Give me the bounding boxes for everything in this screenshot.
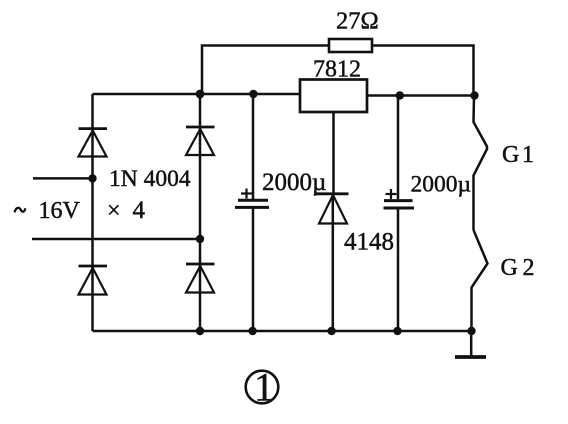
capacitor C1 polarity plus [241,189,252,199]
svg-text:G: G [502,142,519,168]
svg-text:1N 4004: 1N 4004 [109,166,191,192]
wire output bus with G1 tap [474,96,488,231]
wire regulator output rail [367,94,475,97]
capacitor C2 polarity plus [386,189,397,199]
svg-text:×: × [107,198,121,224]
capacitor C2 plates [384,201,415,208]
wire left bridge column [91,94,94,331]
capacitor C1 lead lower [252,208,255,331]
svg-text:27Ω: 27Ω [336,8,379,35]
node bottom rail C2 junction [393,327,401,335]
wire bottom ground rail [93,330,472,333]
node ground junction [467,327,475,335]
capacitor C1 plates [235,200,269,207]
svg-text:2000µ: 2000µ [411,172,472,198]
svg-text:2000µ: 2000µ [262,169,326,196]
svg-text:16V: 16V [39,198,81,224]
ground symbol [455,331,486,357]
wire right bridge column [199,94,202,331]
svg-text:7812: 7812 [313,57,361,83]
svg-text:2: 2 [523,255,535,281]
diode D5 4148 [316,194,349,224]
capacitor C2 lead lower [397,209,400,332]
wire AC input lower [32,238,200,241]
svg-text:G: G [501,255,518,281]
node bottom rail D5 junction [327,327,335,335]
node bottom rail C1 junction [248,327,256,335]
diode D2 1N4004 upper-right [186,127,215,155]
label AC source ~ 16V [15,208,26,212]
wire main rail from bridge to regulator input [93,93,301,96]
svg-text:4: 4 [133,197,146,224]
node C1 top junction [249,90,257,98]
node C2 top junction [396,91,404,99]
node AC2 junction [196,235,204,243]
node AC1 junction [88,174,96,182]
diode D3 1N4004 lower-left [79,266,108,295]
node top rail / bridge column junction [196,90,205,99]
resistor R1 27Ω body [329,39,372,52]
capacitor C1 2000µ lead upper [252,94,255,199]
wire U1 ground pin down to D5 [332,112,335,193]
node bottom rail bridge junction [196,327,204,335]
diode D4 1N4004 lower-right [186,264,215,293]
wire output bus with G2 tap [472,230,488,331]
svg-text:1: 1 [254,365,274,410]
svg-text:4148: 4148 [344,229,394,256]
wire top 27-ohm bypass horizontal [202,46,329,95]
node output bus top junction [470,91,478,99]
op-amp U1 regulator 7812 box [300,80,367,113]
svg-text:1: 1 [522,142,534,168]
capacitor C2 2000µ lead upper [397,96,400,200]
figure number circle 1 [246,365,279,410]
wire top bypass right segment [372,46,474,96]
wire D5 anode to ground rail [332,195,335,331]
wire AC input upper [33,177,93,180]
diode D1 1N4004 upper-left [79,129,108,157]
